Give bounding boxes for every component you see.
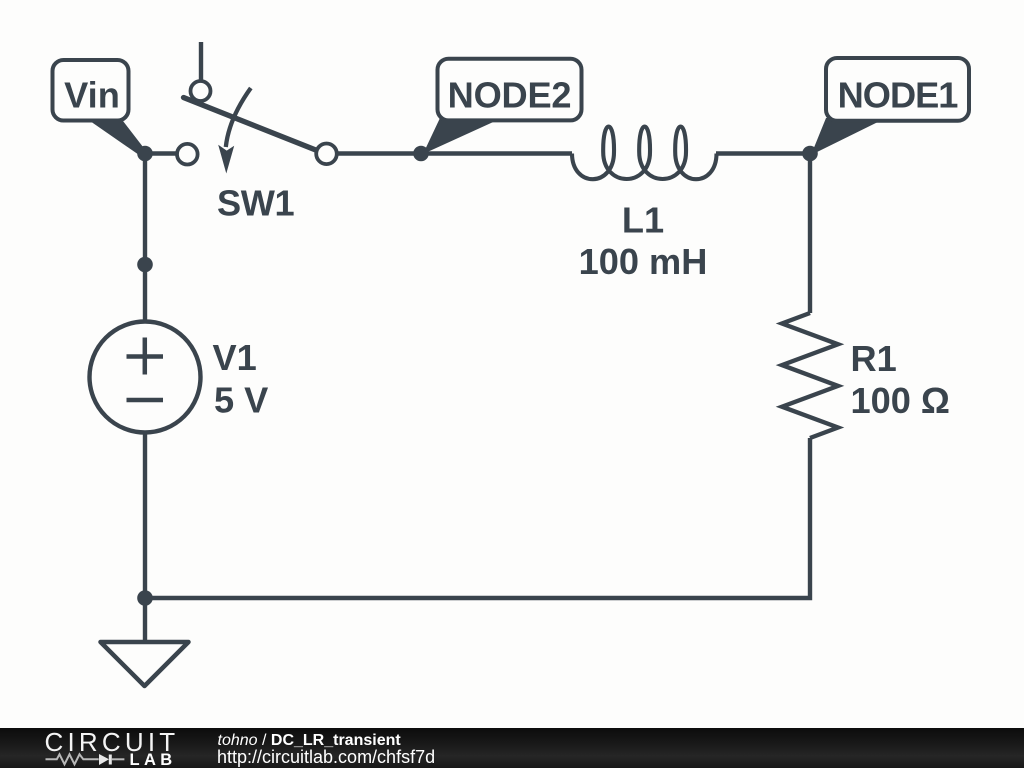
footer bar	[0, 728, 1024, 768]
svg-text:Vin: Vin	[64, 74, 120, 115]
node label NODE2	[423, 59, 582, 154]
inductor L1	[572, 127, 717, 283]
CircuitLab logo	[0, 728, 1024, 768]
wire NODE1 down to resistor R1 top	[808, 154, 812, 314]
wire from Vin node to switch left terminal	[145, 151, 177, 155]
footer title text	[218, 733, 401, 749]
switch SW1	[177, 42, 337, 224]
wire resistor R1 bottom to bottom rail elbow	[145, 438, 810, 598]
ground	[101, 598, 189, 686]
wire from switch right terminal to NODE2	[337, 151, 421, 155]
node label NODE1	[811, 58, 969, 155]
resistor R1	[782, 313, 950, 438]
svg-text:NODE2: NODE2	[448, 74, 572, 115]
node junction Vin	[137, 146, 153, 162]
svg-text:5 V: 5 V	[214, 380, 268, 421]
svg-text:L1: L1	[622, 200, 664, 241]
wire inductor L1 right lead to NODE1	[716, 151, 810, 155]
svg-text:R1: R1	[851, 338, 897, 379]
node junction NODE1	[802, 146, 818, 162]
wire NODE2 to inductor L1 left lead	[421, 151, 572, 155]
node junction NODE2	[413, 146, 429, 162]
footer url text	[217, 748, 435, 766]
junction on V1 top lead	[137, 257, 153, 273]
node label Vin	[53, 60, 147, 156]
junction bottom-left node	[137, 590, 153, 606]
svg-text:LAB: LAB	[130, 751, 177, 768]
wire V1 negative terminal down to ground junction	[143, 433, 147, 599]
voltage source V1	[90, 322, 269, 433]
svg-text:NODE1: NODE1	[838, 74, 959, 115]
svg-text:100 mH: 100 mH	[579, 241, 708, 282]
svg-text:V1: V1	[213, 337, 257, 378]
wire Vin node down to V1 positive terminal	[143, 154, 147, 322]
svg-text:SW1: SW1	[217, 183, 294, 224]
svg-text:100 Ω: 100 Ω	[851, 380, 950, 421]
